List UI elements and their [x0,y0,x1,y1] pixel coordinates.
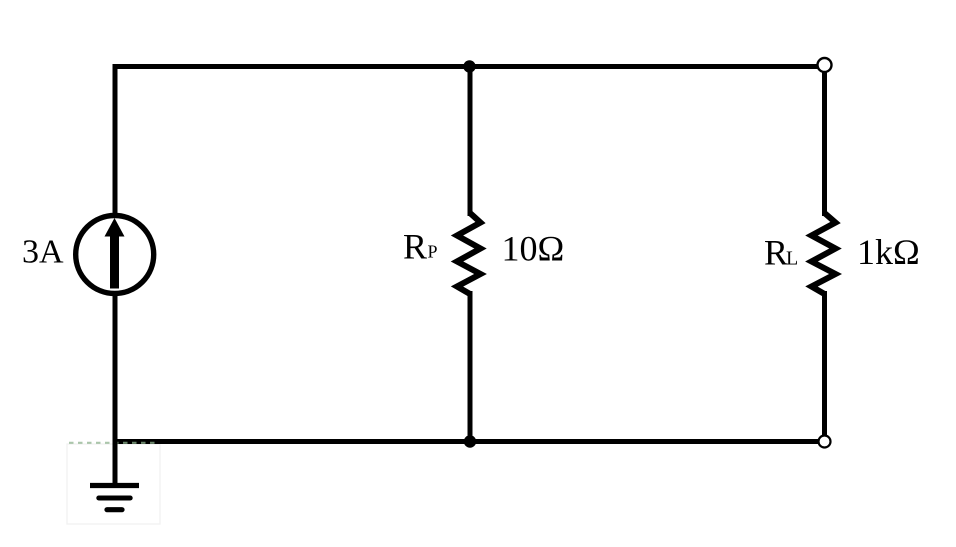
svg-text:1kΩ: 1kΩ [857,232,920,272]
svg-text:10Ω: 10Ω [502,229,565,269]
svg-text:R: R [764,233,788,273]
svg-text:L: L [786,248,798,270]
svg-text:R: R [403,227,427,267]
svg-text:3A: 3A [22,234,64,271]
svg-text:P: P [428,242,438,262]
